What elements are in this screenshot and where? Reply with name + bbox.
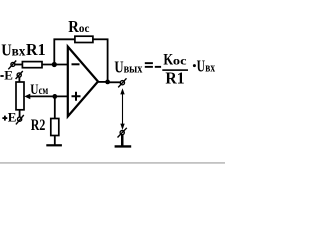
node junction at inverting input bbox=[52, 62, 57, 67]
op-amp plus input sign bbox=[72, 92, 81, 101]
svg-text:U: U bbox=[197, 56, 205, 75]
ground left bbox=[46, 144, 62, 146]
output measurement double arrow bbox=[120, 88, 124, 130]
op-amp minus input sign bbox=[72, 63, 80, 65]
resistor R2 bbox=[51, 119, 59, 136]
terminal +E bbox=[16, 115, 24, 124]
wire potentiometer to +E bbox=[19, 110, 21, 118]
label Uвх bbox=[1, 40, 25, 59]
label Uсм bbox=[30, 82, 48, 98]
output terminal bbox=[118, 78, 126, 87]
ground-side terminal bbox=[118, 128, 127, 138]
wire op-amp output stub bbox=[97, 81, 108, 83]
wire R2 to ground bbox=[54, 136, 56, 145]
svg-text:R1: R1 bbox=[26, 40, 46, 59]
label +E bbox=[2, 109, 16, 124]
svg-text:вх: вх bbox=[12, 43, 26, 58]
resistor R1 bbox=[22, 62, 42, 68]
svg-text:см: см bbox=[39, 85, 49, 97]
wire wiper to op-amp plus input bbox=[29, 95, 69, 97]
op-amp U1 triangle bbox=[68, 47, 98, 117]
wire junction to R2 bbox=[54, 96, 56, 119]
svg-text:K: K bbox=[163, 51, 173, 68]
svg-text:вх: вх bbox=[205, 60, 215, 74]
svg-text:R2: R2 bbox=[31, 117, 46, 134]
formula Uвых = -Kос/R1 · Uвх bbox=[114, 51, 215, 87]
svg-text:R1: R1 bbox=[165, 68, 184, 87]
ground right bbox=[115, 135, 132, 148]
svg-text:Е: Е bbox=[4, 67, 13, 82]
wire R1 to op-amp inverting input bbox=[42, 64, 69, 66]
label Roc bbox=[68, 17, 90, 36]
svg-text:U: U bbox=[1, 40, 11, 59]
svg-text:вых: вых bbox=[124, 61, 143, 76]
node output junction dot bbox=[105, 80, 110, 85]
svg-text:ос: ос bbox=[79, 21, 90, 35]
wire feedback left vertical bbox=[53, 39, 55, 66]
wire -E to potentiometer bbox=[18, 77, 20, 83]
label -E bbox=[0, 67, 12, 82]
svg-text:ос: ос bbox=[173, 53, 187, 67]
wire feedback right vertical down to output bbox=[107, 39, 109, 83]
svg-text:U: U bbox=[114, 58, 123, 77]
potentiometer wiper arrow bbox=[24, 94, 30, 100]
svg-text:Е: Е bbox=[8, 109, 17, 124]
potentiometer bbox=[16, 82, 24, 110]
resistor Roc bbox=[75, 36, 93, 42]
wire input terminal to R1 bbox=[14, 64, 23, 66]
svg-text:U: U bbox=[30, 82, 38, 98]
input terminal Uвх bbox=[8, 61, 16, 70]
terminal -E bbox=[16, 71, 23, 79]
wire output to terminal bbox=[108, 81, 121, 83]
wire feedback top right bbox=[93, 38, 109, 40]
node junction Uсм bbox=[52, 94, 57, 99]
separator rule bbox=[0, 162, 225, 164]
wire feedback top left bbox=[54, 38, 76, 40]
